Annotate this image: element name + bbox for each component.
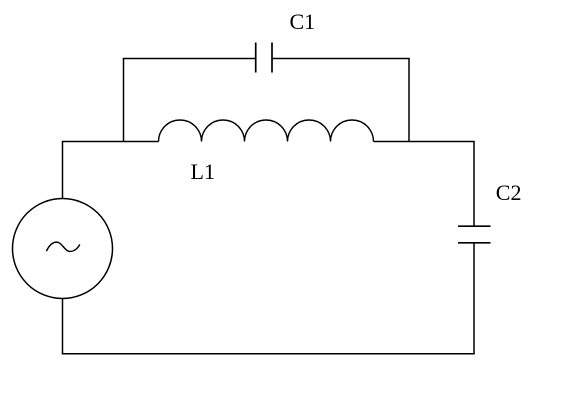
wire [374,141,475,143]
wire [62,141,159,143]
svg-text:C2: C2 [496,180,522,205]
wire [272,58,410,60]
wire [62,299,64,355]
inductor L1 [159,120,374,142]
wire [123,58,256,60]
wire [473,243,475,354]
svg-text:L1: L1 [191,159,215,184]
svg-text:C1: C1 [290,9,316,34]
capacitor C2 [458,226,491,243]
wire [62,142,64,199]
capacitor C1 [256,43,272,73]
wire [408,59,410,142]
sine symbol [46,242,79,251]
wire [123,59,125,142]
wire [473,142,475,227]
source V1 [13,199,113,299]
wire [62,353,475,355]
